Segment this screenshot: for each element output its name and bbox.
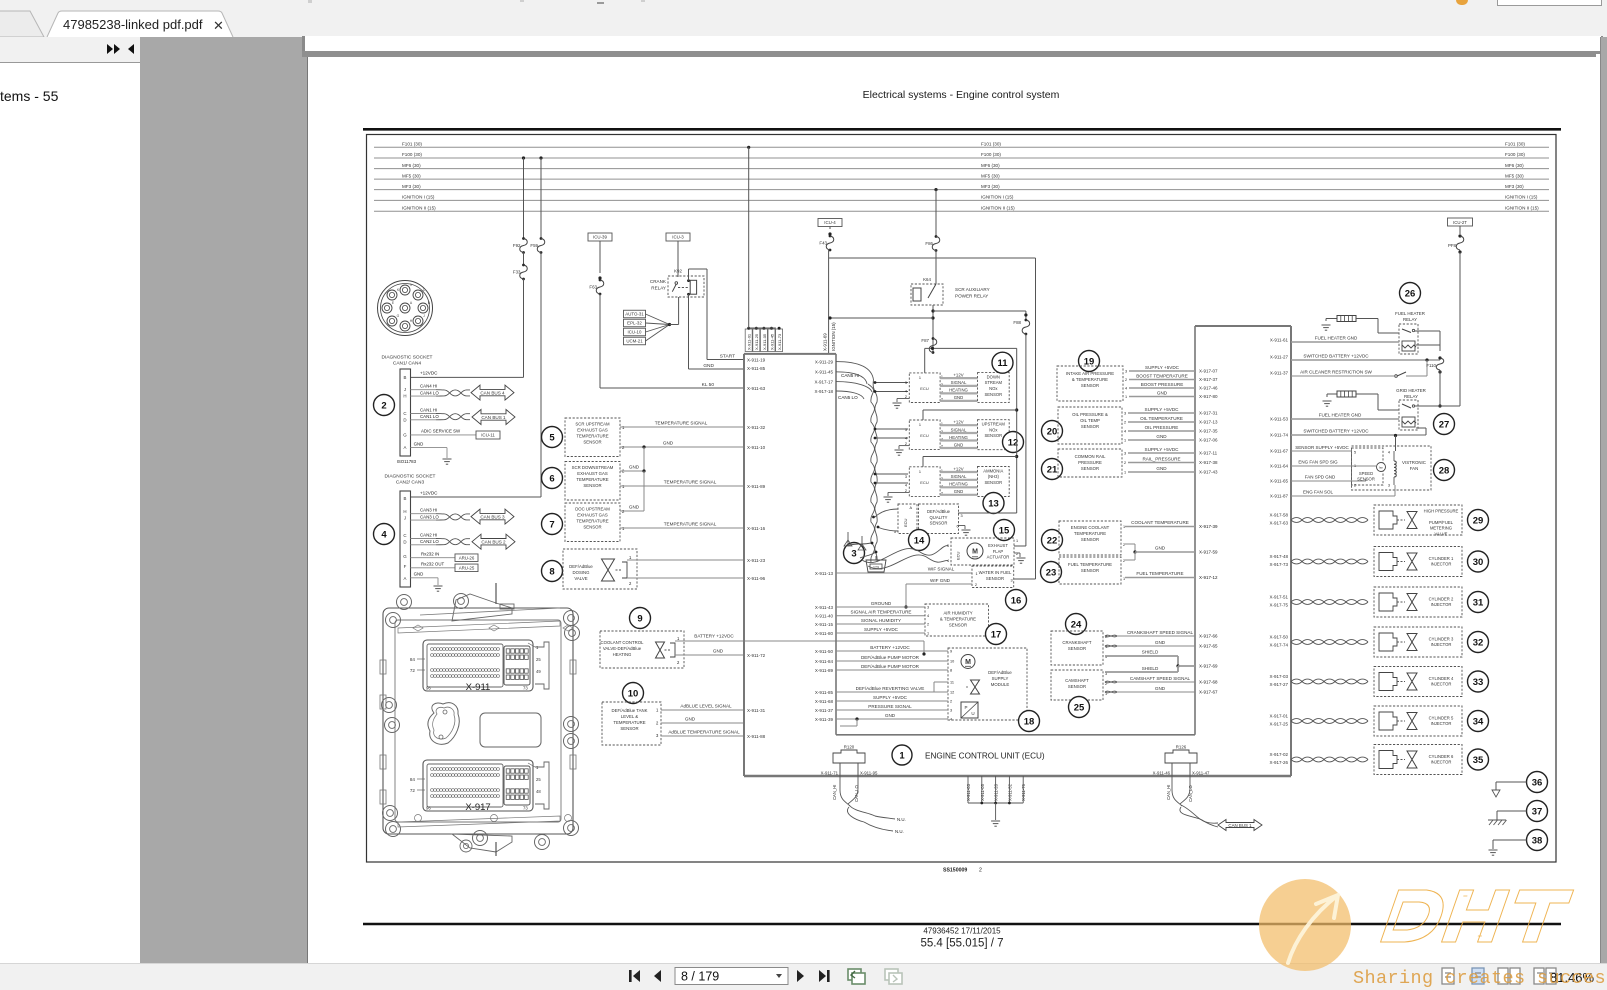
svg-text:X-911-29: X-911-29 xyxy=(815,359,834,364)
svg-text:F: F xyxy=(404,564,407,569)
wire battery +12VDC from 9 xyxy=(675,640,924,642)
svg-text:6: 6 xyxy=(957,525,959,529)
svg-text:SENSOR: SENSOR xyxy=(1081,466,1099,471)
svg-text:X-917-75: X-917-75 xyxy=(1269,603,1288,608)
svg-text:OIL PRESSURE: OIL PRESSURE xyxy=(1145,425,1179,430)
supply module P/U box xyxy=(961,702,978,718)
pin band xyxy=(431,648,434,651)
svg-text:ENGINE COOLANT: ENGINE COOLANT xyxy=(1071,525,1110,530)
svg-text:X-917: X-917 xyxy=(465,802,490,813)
svg-text:X-917-80: X-917-80 xyxy=(1199,394,1218,399)
svg-text:CAN BUS 4: CAN BUS 4 xyxy=(480,390,505,395)
feeder F92 xyxy=(523,158,525,239)
svg-text:X-917-01: X-917-01 xyxy=(1269,714,1288,719)
power pin block xyxy=(504,646,530,685)
svg-text:38: 38 xyxy=(1532,835,1543,846)
bus junction dots xyxy=(522,156,525,159)
svg-text:METERING: METERING xyxy=(1430,526,1452,531)
wires from option boxes to crank relay coil xyxy=(646,314,670,325)
wire gnd 6 to junction xyxy=(620,470,644,472)
svg-text:CAN3 LO: CAN3 LO xyxy=(420,514,439,519)
vertical CAN twisted bundle xyxy=(873,380,877,562)
svg-text:F86: F86 xyxy=(925,241,933,246)
svg-text:ECU: ECU xyxy=(920,433,929,438)
sensor 22 engine coolant temperature xyxy=(1042,530,1063,551)
svg-text:SUPPLY: SUPPLY xyxy=(992,676,1009,681)
svg-text:HEATING: HEATING xyxy=(949,435,968,440)
svg-text:TEMPERATURE: TEMPERATURE xyxy=(1074,531,1106,536)
svg-text:F59: F59 xyxy=(530,243,538,248)
svg-text:X-917-59: X-917-59 xyxy=(1199,550,1218,555)
svg-text:Rx232 IN: Rx232 IN xyxy=(421,552,439,557)
svg-text:CAN BUS 1: CAN BUS 1 xyxy=(1228,823,1252,828)
pin band xyxy=(431,789,434,792)
node 3 xyxy=(844,543,865,564)
svg-text:ECU: ECU xyxy=(903,518,908,527)
svg-text:X-911-47: X-911-47 xyxy=(1192,770,1210,775)
svg-text:DEF/AdBlue: DEF/AdBlue xyxy=(927,509,951,514)
svg-text:X-911-43: X-911-43 xyxy=(815,605,834,610)
svg-text:X-917-37: X-917-37 xyxy=(1199,377,1218,382)
svg-text:F33: F33 xyxy=(513,270,521,275)
schematic frame xyxy=(367,135,1557,863)
svg-text:CYLINDER 6: CYLINDER 6 xyxy=(1429,754,1454,759)
svg-text:1: 1 xyxy=(629,555,632,560)
svg-text:3: 3 xyxy=(1124,452,1126,456)
exhaust flap actuator xyxy=(951,538,1014,565)
svg-text:3: 3 xyxy=(905,381,907,385)
ground module 11 xyxy=(897,398,909,400)
sensor 17 air humidity and temperature xyxy=(836,606,925,608)
svg-text:X-911-28: X-911-28 xyxy=(994,783,999,801)
svg-text:SENSOR: SENSOR xyxy=(984,480,1002,485)
diagnostic connector bar 1 xyxy=(400,369,411,456)
wire temperature signal 7 xyxy=(620,527,744,529)
svg-text:X-917-38: X-917-38 xyxy=(1199,460,1218,465)
svg-text:K: K xyxy=(397,288,400,292)
module number circle xyxy=(1003,432,1024,453)
svg-text:COMMON RAIL: COMMON RAIL xyxy=(1075,454,1106,459)
svg-text:FUEL HEATER GND: FUEL HEATER GND xyxy=(1315,336,1358,341)
svg-text:1: 1 xyxy=(1123,525,1125,529)
svg-text:CAN2 HI: CAN2 HI xyxy=(420,532,437,537)
svg-text:SENSOR: SENSOR xyxy=(583,525,601,530)
svg-text:F87: F87 xyxy=(921,338,929,343)
svg-text:23: 23 xyxy=(1046,567,1057,578)
sensor 20 xyxy=(1042,421,1063,442)
svg-text:2: 2 xyxy=(1123,543,1125,547)
svg-text:IGNITION (15): IGNITION (15) xyxy=(831,322,836,351)
ground symbol xyxy=(443,458,452,460)
svg-text:18: 18 xyxy=(1024,716,1035,727)
svg-text:84: 84 xyxy=(410,777,416,782)
svg-text:1: 1 xyxy=(410,283,412,287)
svg-text:IGNITION II (15): IGNITION II (15) xyxy=(981,205,1015,210)
module number circle xyxy=(992,352,1013,373)
supply module motor symbol xyxy=(961,655,975,669)
svg-text:SUPPLY +5VDC: SUPPLY +5VDC xyxy=(1145,407,1180,412)
svg-text:& TEMPERATURE: & TEMPERATURE xyxy=(1072,377,1108,382)
svg-text:X-911-87: X-911-87 xyxy=(1270,494,1289,499)
svg-text:CAN5 LO: CAN5 LO xyxy=(838,395,858,400)
svg-text:GND: GND xyxy=(663,441,674,446)
svg-text:INJECTOR: INJECTOR xyxy=(1431,760,1452,765)
svg-text:SUPPLY +5VDC: SUPPLY +5VDC xyxy=(873,695,908,700)
svg-text:INJECTOR: INJECTOR xyxy=(1431,721,1452,726)
bundle taps to NOx modules xyxy=(875,382,908,384)
first page btn xyxy=(633,970,640,982)
svg-text:J: J xyxy=(423,314,425,318)
svg-text:8 / 179: 8 / 179 xyxy=(681,970,719,984)
cam shield wire xyxy=(1105,671,1178,673)
svg-text:X-911-73: X-911-73 xyxy=(777,333,782,350)
ARU-25 box xyxy=(455,564,478,572)
svg-text:2: 2 xyxy=(1354,484,1356,488)
svg-text:START: START xyxy=(720,354,735,360)
svg-text:X-911-05: X-911-05 xyxy=(762,333,767,350)
bottom toolbar xyxy=(0,963,1607,990)
svg-text:G: G xyxy=(397,314,400,318)
svg-text:11: 11 xyxy=(950,681,954,685)
svg-text:X-911-64: X-911-64 xyxy=(1270,464,1289,469)
svg-text:12: 12 xyxy=(950,691,954,695)
svg-text:X-917-50: X-917-50 xyxy=(1269,635,1288,640)
svg-text:GND: GND xyxy=(685,717,696,722)
svg-text:SIGNAL AIR TEMPERATURE: SIGNAL AIR TEMPERATURE xyxy=(851,610,912,615)
svg-text:X-911-89: X-911-89 xyxy=(747,484,766,489)
svg-text:X-911-10: X-911-10 xyxy=(747,445,766,450)
svg-text:GND: GND xyxy=(1155,546,1166,551)
svg-text:MF5 (30): MF5 (30) xyxy=(1505,173,1524,178)
quality sensor tap wires xyxy=(875,509,898,517)
svg-text:37: 37 xyxy=(1532,806,1543,817)
svg-text:4: 4 xyxy=(905,437,907,441)
svg-text:ISO11783: ISO11783 xyxy=(397,459,417,464)
svg-text:VALVE: VALVE xyxy=(1435,531,1448,536)
svg-text:DEF/AdBlue PUMP MOTOR: DEF/AdBlue PUMP MOTOR xyxy=(861,664,920,669)
svg-text:55.4 [55.015] / 7: 55.4 [55.015] / 7 xyxy=(920,938,1003,950)
svg-text:F100 (30): F100 (30) xyxy=(981,152,1001,157)
svg-text:2: 2 xyxy=(979,868,982,874)
svg-text:25: 25 xyxy=(536,657,541,662)
svg-text:X-911-72: X-911-72 xyxy=(747,653,766,658)
svg-text:X-911-31: X-911-31 xyxy=(747,708,766,713)
prev btn xyxy=(654,970,661,982)
svg-text:ENG FAN SOL: ENG FAN SOL xyxy=(1303,490,1334,495)
svg-text:F110: F110 xyxy=(1426,363,1436,368)
page box xyxy=(675,968,788,985)
svg-text:CAN BUS 2: CAN BUS 2 xyxy=(481,540,506,545)
svg-text:F92: F92 xyxy=(513,243,521,248)
svg-text:X-911-13: X-911-13 xyxy=(815,571,834,576)
svg-text:SENSOR: SENSOR xyxy=(1068,646,1086,651)
svg-text:X-911-84: X-911-84 xyxy=(815,659,834,664)
svg-text:SUPPLY +5VDC: SUPPLY +5VDC xyxy=(1145,365,1180,370)
svg-text:FAN SPD GND: FAN SPD GND xyxy=(1305,475,1336,480)
svg-text:DOC UPSTREAM: DOC UPSTREAM xyxy=(575,507,610,512)
gray pdf background column xyxy=(140,37,307,963)
wire fuel heater gnd xyxy=(1291,341,1399,343)
sidebar header strip xyxy=(0,37,140,63)
svg-text:3: 3 xyxy=(1011,579,1013,583)
svg-text:MF3 (30): MF3 (30) xyxy=(981,184,1000,189)
svg-text:SPEED: SPEED xyxy=(1359,471,1373,476)
svg-text:2: 2 xyxy=(1124,421,1126,425)
svg-text:F101 (30): F101 (30) xyxy=(402,142,422,147)
divider under scrollbar xyxy=(302,51,1600,57)
svg-text:IGNITION I (15): IGNITION I (15) xyxy=(981,195,1014,200)
power pin block xyxy=(504,766,530,805)
svg-text:1: 1 xyxy=(1124,439,1126,443)
svg-text:24: 24 xyxy=(1071,619,1082,630)
K64 outputs xyxy=(932,305,934,352)
svg-text:DIAGNOSTIC SOCKET: DIAGNOSTIC SOCKET xyxy=(382,355,433,361)
speed sensor box xyxy=(1352,448,1384,485)
ICU-11 box xyxy=(476,431,500,439)
svg-text:CAN_HI: CAN_HI xyxy=(1166,785,1171,800)
svg-text:4: 4 xyxy=(1125,387,1127,391)
svg-text:FUEL HEATER: FUEL HEATER xyxy=(1395,311,1425,316)
svg-text:96: 96 xyxy=(426,686,431,691)
svg-text:MODULE: MODULE xyxy=(991,682,1010,687)
+12V daisy chain wires xyxy=(925,347,1017,349)
fuse F110 xyxy=(1436,358,1444,370)
svg-text:TEMPERATURE: TEMPERATURE xyxy=(576,434,608,439)
svg-text:SENSOR SUPPLY +5VDC: SENSOR SUPPLY +5VDC xyxy=(1295,445,1349,450)
gasket blob xyxy=(428,703,459,745)
svg-text:8: 8 xyxy=(950,669,952,673)
svg-text:20: 20 xyxy=(1047,426,1058,437)
svg-text:33: 33 xyxy=(1473,677,1484,688)
svg-text:R120: R120 xyxy=(844,745,855,750)
svg-text:SHIELD: SHIELD xyxy=(1142,650,1159,655)
svg-text:X-911-85: X-911-85 xyxy=(815,690,834,695)
svg-text:E: E xyxy=(392,301,395,305)
wire F33 to diag socket +12VDC xyxy=(523,279,525,377)
svg-text:47985238-linked pdf.pdf: 47985238-linked pdf.pdf xyxy=(63,17,203,32)
svg-text:X-917-06: X-917-06 xyxy=(1199,438,1218,443)
node 15 xyxy=(994,520,1015,541)
svg-text:AdBLUE LEVEL SIGNAL: AdBLUE LEVEL SIGNAL xyxy=(680,704,732,709)
crank shield wire xyxy=(1105,655,1178,657)
svg-text:GND: GND xyxy=(954,489,964,494)
ICU-39 box xyxy=(588,233,612,241)
svg-text:D: D xyxy=(403,540,406,545)
svg-text:X-917-02: X-917-02 xyxy=(1269,752,1288,757)
svg-text:3: 3 xyxy=(961,514,963,518)
svg-text:36: 36 xyxy=(1532,777,1543,788)
svg-text:2: 2 xyxy=(381,400,386,411)
svg-text:BOOST TEMPERATURE: BOOST TEMPERATURE xyxy=(1136,374,1188,379)
svg-text:SCR DOWNSTREAM: SCR DOWNSTREAM xyxy=(572,465,614,470)
svg-text:ARU-25: ARU-25 xyxy=(459,565,475,570)
svg-text:GND: GND xyxy=(954,395,964,400)
svg-text:ICU-10: ICU-10 xyxy=(628,330,642,335)
svg-text:X-917-13: X-917-13 xyxy=(1199,420,1218,425)
svg-text:X-911-40: X-911-40 xyxy=(815,614,834,619)
svg-text:5: 5 xyxy=(549,432,555,443)
svg-text:25: 25 xyxy=(1074,702,1085,713)
wire 8 pin2 xyxy=(627,577,744,579)
svg-text:KL 50: KL 50 xyxy=(702,382,715,388)
svg-text:3: 3 xyxy=(1388,484,1390,488)
svg-text:21: 21 xyxy=(1047,464,1058,475)
svg-text:CAN1/ CAN4: CAN1/ CAN4 xyxy=(393,361,422,367)
ECU U-frame: left column xyxy=(743,354,745,776)
svg-text:X-911-65: X-911-65 xyxy=(1270,479,1289,484)
svg-text:15: 15 xyxy=(999,525,1010,536)
svg-text:IGNITION I (15): IGNITION I (15) xyxy=(402,195,435,200)
air cleaner restriction switch xyxy=(1291,375,1394,377)
svg-text:CAN4 LO: CAN4 LO xyxy=(420,390,439,395)
svg-text:47936452 17/11/2015: 47936452 17/11/2015 xyxy=(923,927,1001,936)
NOx module ECU box xyxy=(909,467,940,497)
F43 feed down to ECU pin X-911-69 + branch to WIF xyxy=(828,250,830,354)
svg-text:X-911-85: X-911-85 xyxy=(747,366,766,371)
svg-text:G: G xyxy=(403,554,407,559)
svg-text:K64: K64 xyxy=(923,277,931,282)
svg-text:4: 4 xyxy=(1388,451,1390,455)
sensor 16 water in fuel xyxy=(836,572,972,574)
svg-text:LEVEL &: LEVEL & xyxy=(621,714,638,719)
svg-text:1: 1 xyxy=(899,750,905,761)
svg-text:X-917-43: X-917-43 xyxy=(1199,470,1218,475)
svg-text:CAMSHAFT SPEED SIGNAL: CAMSHAFT SPEED SIGNAL xyxy=(1130,676,1191,681)
svg-text:2: 2 xyxy=(677,660,680,665)
svg-text:CRANK: CRANK xyxy=(650,279,667,284)
NOx module ECU box xyxy=(909,420,940,450)
svg-text:22: 22 xyxy=(1047,535,1058,546)
svg-text:4: 4 xyxy=(1124,430,1126,434)
svg-text:X-911-46: X-911-46 xyxy=(1153,770,1171,775)
svg-text:Rx232 OUT: Rx232 OUT xyxy=(421,562,444,567)
svg-text:SIGNAL: SIGNAL xyxy=(951,474,967,479)
svg-text:10: 10 xyxy=(950,660,954,664)
svg-text:72: 72 xyxy=(410,788,416,793)
svg-text:SENSOR: SENSOR xyxy=(930,521,948,526)
svg-text:4: 4 xyxy=(947,559,949,563)
sensor 19 xyxy=(1079,351,1100,372)
svg-text:SENSOR: SENSOR xyxy=(1081,424,1099,429)
svg-text:BOOST PRESSURE: BOOST PRESSURE xyxy=(1141,382,1184,387)
svg-text:QUALITY: QUALITY xyxy=(930,515,948,520)
fuse F87 xyxy=(932,337,935,340)
svg-text:HEATING: HEATING xyxy=(613,652,632,657)
svg-text:1: 1 xyxy=(677,636,680,641)
svg-text:PRESSURE: PRESSURE xyxy=(1078,460,1102,465)
flap pin2 ground xyxy=(1014,552,1020,554)
svg-text:+12V: +12V xyxy=(953,372,963,377)
svg-text:B: B xyxy=(428,301,431,305)
sensor 7 DOC upstream exhaust gas temperature sensor xyxy=(542,514,563,535)
svg-text:X-911-89: X-911-89 xyxy=(815,668,834,673)
svg-text:GROUND: GROUND xyxy=(871,601,892,606)
svg-text:X-917-18: X-917-18 xyxy=(814,389,833,394)
prev view icon xyxy=(848,969,865,984)
svg-text:GND: GND xyxy=(414,442,424,447)
svg-text:CAN4 HI: CAN4 HI xyxy=(420,384,437,389)
svg-text:N.U.: N.U. xyxy=(895,829,904,834)
svg-text:C: C xyxy=(403,533,406,538)
svg-text:5: 5 xyxy=(1354,451,1356,455)
ground node 36 xyxy=(1527,772,1548,793)
svg-text:1: 1 xyxy=(976,572,978,576)
vertical scrollbar xyxy=(1600,37,1607,963)
svg-text:29: 29 xyxy=(1473,515,1484,526)
svg-text:X-911-45: X-911-45 xyxy=(769,333,774,350)
NOx sensor box xyxy=(978,373,1010,403)
svg-text:CAN_HI: CAN_HI xyxy=(832,785,837,800)
svg-text:3: 3 xyxy=(851,548,856,559)
connector 129 symbol xyxy=(866,560,886,572)
svg-text:X-911-45: X-911-45 xyxy=(815,370,834,375)
reverting valve wire with bend xyxy=(836,691,934,693)
top edge remnants xyxy=(1497,0,1602,6)
NOx sensor box xyxy=(978,467,1010,497)
svg-text:GND: GND xyxy=(703,363,714,369)
svg-text:X-917-74: X-917-74 xyxy=(1269,643,1288,648)
svg-text:G: G xyxy=(403,433,407,438)
svg-text:DEF/AdBlue TANK: DEF/AdBlue TANK xyxy=(612,708,648,713)
svg-text:INTAKE AIR PRESSURE: INTAKE AIR PRESSURE xyxy=(1066,371,1114,376)
CAN BUS 2 arrow xyxy=(472,534,515,549)
svg-text:VALVE-DEF/AdBlue: VALVE-DEF/AdBlue xyxy=(603,646,642,651)
NOx sensor box xyxy=(978,420,1010,450)
svg-text:ICU-4: ICU-4 xyxy=(824,220,836,225)
relay26 coil tie xyxy=(1416,344,1440,346)
svg-text:4: 4 xyxy=(905,483,907,487)
node 17 xyxy=(986,624,1007,645)
svg-text:3: 3 xyxy=(1124,412,1126,416)
svg-text:DEF/AdBlue REVERTING VALVE: DEF/AdBlue REVERTING VALVE xyxy=(856,686,925,691)
svg-text:ADIC SERVICE SW: ADIC SERVICE SW xyxy=(421,429,461,434)
svg-text:28: 28 xyxy=(1439,465,1450,476)
svg-text:EXHAUST GAS: EXHAUST GAS xyxy=(577,513,608,518)
svg-text:AIR CLEANER RESTRICTION SW: AIR CLEANER RESTRICTION SW xyxy=(1300,370,1372,375)
svg-text:73: 73 xyxy=(523,806,528,811)
relay 26 fuel heater relay xyxy=(1400,283,1421,304)
last page btn xyxy=(819,970,826,982)
svg-text:POWER RELAY: POWER RELAY xyxy=(955,294,988,299)
svg-text:ENG FAN SPD SIG: ENG FAN SPD SIG xyxy=(1298,460,1338,465)
wire AdBlue temperature signal xyxy=(661,735,744,737)
svg-text:CAN2/ CAN3: CAN2/ CAN3 xyxy=(396,480,425,486)
svg-text:TEMPERATURE SIGNAL: TEMPERATURE SIGNAL xyxy=(655,421,708,426)
svg-text:X-917-12: X-917-12 xyxy=(1199,575,1218,580)
svg-text:Electrical systems - Engine co: Electrical systems - Engine control syst… xyxy=(863,89,1060,101)
power bus wires xyxy=(374,146,1549,148)
svg-text:1: 1 xyxy=(656,708,659,713)
vistronic fan 28 xyxy=(1352,446,1432,490)
horizontal scrollbar strip on top of viewer xyxy=(302,36,1603,51)
svg-text:4: 4 xyxy=(905,389,907,393)
svg-text:X-917-68: X-917-68 xyxy=(1199,680,1218,685)
schematic svg xyxy=(307,57,1596,963)
svg-text:WIF GND: WIF GND xyxy=(930,578,951,583)
svg-text:X-911-37: X-911-37 xyxy=(1270,371,1289,376)
NOx module ECU box xyxy=(909,373,940,403)
fuse F43 xyxy=(829,235,832,238)
svg-text:13: 13 xyxy=(988,498,999,509)
svg-text:31: 31 xyxy=(1473,597,1484,608)
svg-text:FUEL TEMPERATURE: FUEL TEMPERATURE xyxy=(1136,571,1183,576)
svg-text:AMMONIA: AMMONIA xyxy=(983,468,1003,473)
svg-text:X-917-46: X-917-46 xyxy=(1199,386,1218,391)
node 18 xyxy=(1019,711,1040,732)
svg-text:RELAY: RELAY xyxy=(1403,317,1417,322)
svg-text:X-917-73: X-917-73 xyxy=(1269,562,1288,567)
svg-text:84: 84 xyxy=(410,657,416,662)
